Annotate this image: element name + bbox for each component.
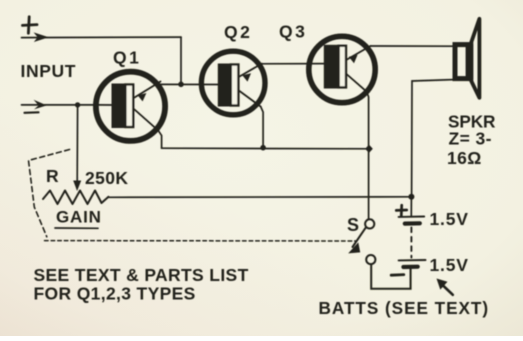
Q3 emitter arrow <box>349 55 358 63</box>
wire: Q3 emitter to speaker top <box>371 45 453 47</box>
svg-text:Z= 3-: Z= 3- <box>449 129 492 149</box>
svg-text:INPUT: INPUT <box>21 61 77 81</box>
wire: switch to battery negative <box>371 264 410 289</box>
pot wiper arrowhead <box>73 181 81 192</box>
wire: Q2 collector drop <box>261 107 263 148</box>
junction diamond: bottom rail / collector bus <box>365 145 373 153</box>
switch top contact circle <box>365 219 374 228</box>
input minus polarity dash <box>25 111 39 114</box>
input - arrowhead <box>34 100 47 110</box>
wire: +rail corner drop <box>180 37 182 84</box>
Q1 circle <box>96 72 165 141</box>
Q3 circle <box>309 36 375 102</box>
svg-text:250K: 250K <box>85 168 128 188</box>
battery B1 long plate <box>399 216 425 218</box>
transistor Q2 <box>201 51 265 115</box>
Q3 collector diagonal <box>347 75 367 92</box>
Q1 base bar black half <box>112 84 125 129</box>
Q2 emitter arrow <box>242 73 251 81</box>
Q1 base bar white half <box>125 85 133 128</box>
switch bottom contact circle <box>366 255 375 264</box>
transistor Q3 <box>309 36 375 102</box>
svg-text:1.5V: 1.5V <box>430 255 469 275</box>
switch blade arrowhead <box>348 242 360 253</box>
dashed battery interconnect <box>410 228 412 258</box>
svg-text:S: S <box>347 215 359 235</box>
wire: Q2 emitter to Q3 base <box>262 63 325 65</box>
mechanical link dashes pot-to-switch <box>29 150 70 237</box>
Q1 base lead <box>98 104 113 106</box>
speaker cone <box>471 19 480 98</box>
wire: pot wiper drop <box>76 105 78 182</box>
battery B2 short thick plate <box>403 265 417 269</box>
switch S <box>348 219 375 264</box>
battery B2 minus sign <box>391 273 404 276</box>
svg-text:16Ω: 16Ω <box>447 148 482 168</box>
junction dot: +rail / interstage <box>178 82 184 88</box>
transistor Q1 <box>96 72 165 141</box>
input plus polarity mark <box>23 17 38 33</box>
Q2 circle <box>201 51 265 115</box>
Q2 base bar black half <box>218 64 230 107</box>
svg-text:Q3: Q3 <box>279 21 307 41</box>
svg-text:R: R <box>46 166 59 186</box>
svg-text:SEE TEXT & PARTS LIST: SEE TEXT & PARTS LIST <box>34 265 249 285</box>
wire: speaker bottom lead <box>412 80 453 197</box>
Q2 collector diagonal <box>240 91 261 107</box>
svg-text:Q2: Q2 <box>224 22 252 42</box>
junction dot: Q2 collector on bottom rail <box>260 145 266 151</box>
battery B2 long plate <box>399 259 426 261</box>
Q1 emitter diagonal <box>135 82 161 98</box>
svg-text:FOR Q1,2,3 TYPES: FOR Q1,2,3 TYPES <box>34 284 196 304</box>
input + arrowhead <box>34 32 49 42</box>
switch blade <box>353 228 366 247</box>
battery B1 plus sign <box>396 205 406 215</box>
Q3 base bar white half <box>339 46 346 88</box>
Q2 base bar white half <box>231 65 239 106</box>
Q1 emitter arrow <box>138 93 147 101</box>
svg-text:Q1: Q1 <box>113 48 141 68</box>
wire: Q1 collector drop to bottom rail <box>158 130 162 149</box>
svg-text:GAIN: GAIN <box>56 208 102 227</box>
wire: pot to battery positive rail <box>109 196 412 199</box>
Q3 base bar black half <box>324 45 338 89</box>
potentiometer R 250K zigzag <box>43 191 109 205</box>
wire: bottom rail <box>162 147 369 150</box>
wire: input - terminal line <box>22 104 99 106</box>
annotation arrowhead <box>437 279 448 290</box>
junction dot: speaker return / battery + <box>408 194 414 200</box>
junction dot: input to wiper <box>75 102 80 107</box>
speaker SPKR <box>412 19 480 197</box>
svg-text:1.5V: 1.5V <box>430 209 469 229</box>
annotation arrow to lower battery <box>443 286 453 295</box>
Q3 emitter diagonal <box>347 46 371 60</box>
wire: Q1 emitter to Q2 base <box>161 83 220 85</box>
wire: Q3 collector down to switch <box>367 92 369 220</box>
svg-text:BATTS (SEE TEXT): BATTS (SEE TEXT) <box>319 298 490 318</box>
Q2 emitter diagonal <box>240 64 262 77</box>
battery B1 short thick plate <box>405 221 420 226</box>
speaker throat fill <box>466 44 474 79</box>
mechanical link dashes bottom run <box>45 240 357 242</box>
speaker voice-coil frame <box>455 45 471 79</box>
battery B1 positive lead <box>410 197 412 216</box>
GAIN underline <box>55 227 98 229</box>
Q1 collector diagonal <box>135 110 158 131</box>
wire: input + terminal line <box>22 36 182 39</box>
battery B2 negative lead <box>410 267 412 289</box>
